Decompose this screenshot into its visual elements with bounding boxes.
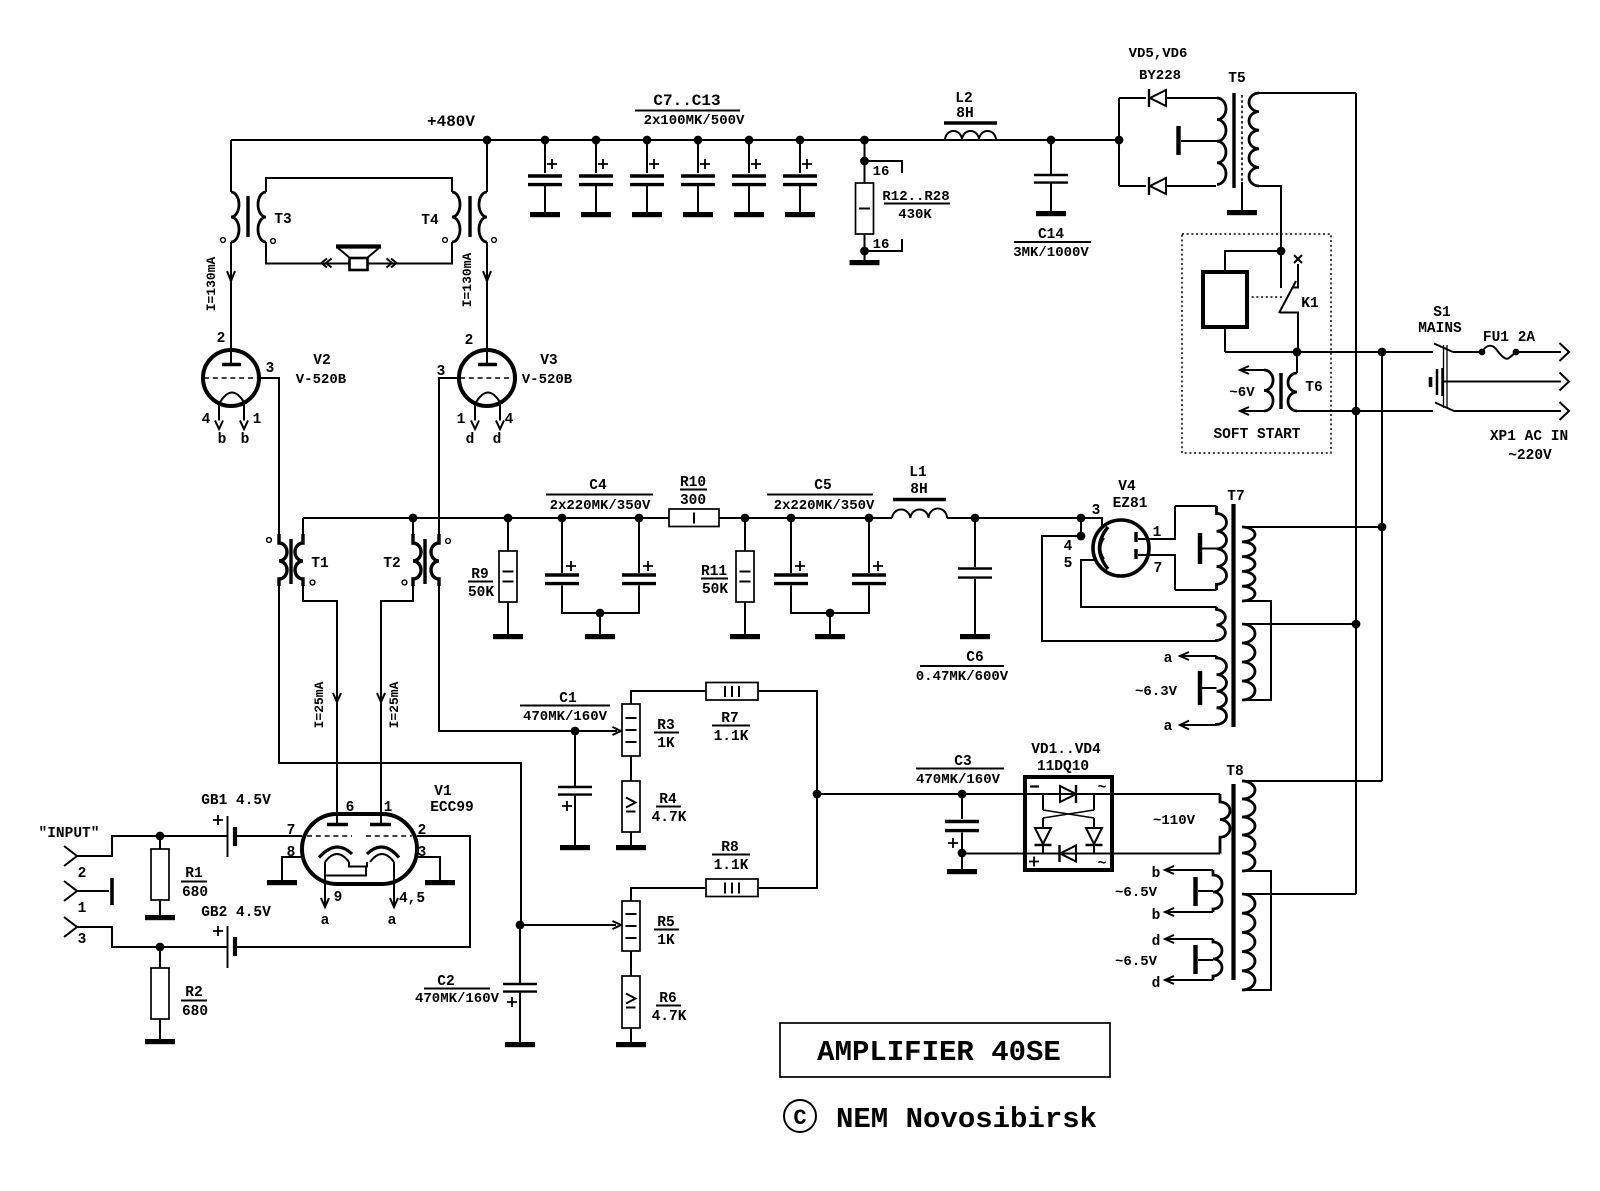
- wire T4 right winding bottom to V2 anode (pin2 of V3): [483, 242, 491, 364]
- wire T2 left winding top to B+ rail: [412, 518, 414, 534]
- resistor R8: [706, 879, 758, 897]
- wire switched mains vertical line: [1381, 352, 1383, 781]
- svg-text:+480V: +480V: [427, 113, 475, 131]
- wire bridge to T8 110V top: [1112, 793, 1220, 795]
- T8 heater winding d: [1196, 939, 1223, 980]
- svg-text:VD5,VD6: VD5,VD6: [1129, 46, 1188, 62]
- wire mains bottom line: [1297, 407, 1433, 416]
- wire R7 right to C3 node: [758, 691, 817, 794]
- resistor R1: [145, 836, 175, 920]
- wire T8 b lead top: [1152, 866, 1213, 882]
- capacitor C4 (2 sections): [545, 518, 656, 639]
- wire T1 primary bottom to R5 node: [279, 586, 521, 925]
- svg-text:~6.5V: ~6.5V: [1115, 954, 1158, 970]
- svg-text:V4: V4: [1118, 479, 1136, 495]
- label R6 4.7K: [652, 991, 687, 1025]
- wire bridge to T8 110V bottom: [1112, 853, 1220, 855]
- wire T8 primary lower top to mains neutral: [1242, 893, 1356, 895]
- svg-text:d: d: [466, 432, 475, 448]
- svg-text:ECC99: ECC99: [430, 800, 474, 816]
- capacitor C3: [945, 790, 979, 875]
- tube V1 ECC99: [287, 784, 474, 929]
- relay K1 coil: [1203, 251, 1281, 352]
- wire T8 primary bottoms tied: [1242, 871, 1271, 990]
- svg-text:3MK/1000V: 3MK/1000V: [1013, 245, 1089, 261]
- wire T8 d lead bottom: [1152, 976, 1213, 992]
- wire T7 primary sections bottoms tied: [1242, 601, 1271, 700]
- resistor R7: [706, 683, 758, 701]
- capacitor C5 (2 sections): [774, 518, 886, 639]
- wire R8 right to C3 node: [758, 794, 817, 888]
- svg-text:d: d: [1152, 934, 1161, 950]
- resistor R6: [616, 976, 646, 1047]
- svg-text:T5: T5: [1228, 71, 1245, 87]
- svg-text:C5: C5: [814, 478, 831, 494]
- label I=130mA right: [460, 252, 475, 307]
- wire V4 heater pin4 loop: [1042, 536, 1217, 641]
- svg-text:T6: T6: [1305, 380, 1322, 396]
- svg-text:1K: 1K: [657, 736, 675, 752]
- svg-text:1K: 1K: [657, 933, 675, 949]
- T7 primary lower section: [1242, 624, 1255, 700]
- wire T3 secondary top to T4: [266, 178, 452, 192]
- svg-text:470MK/160V: 470MK/160V: [415, 991, 500, 1007]
- svg-text:T8: T8: [1226, 764, 1243, 780]
- label R5 1K: [654, 915, 679, 949]
- svg-text:7: 7: [287, 823, 296, 839]
- junction C1 node: [571, 727, 580, 736]
- svg-text:1: 1: [78, 901, 87, 917]
- node +480V label: [427, 113, 475, 131]
- resistor R3: [622, 704, 640, 756]
- fuse FU1: [1453, 330, 1535, 359]
- tube V3: [437, 333, 573, 448]
- svg-text:R1: R1: [185, 866, 203, 882]
- wire input pin2 to grid node: [77, 836, 160, 856]
- wire arrow into R5: [520, 921, 621, 929]
- svg-text:I=130mA: I=130mA: [204, 256, 219, 311]
- svg-text:680: 680: [182, 885, 208, 901]
- label R1 680: [181, 866, 208, 901]
- switch S1 MAINS: [1418, 305, 1462, 411]
- svg-text:~110V: ~110V: [1153, 813, 1196, 829]
- svg-text:50K: 50K: [702, 582, 728, 598]
- resistor R11: [730, 518, 760, 639]
- svg-text:2: 2: [418, 823, 427, 839]
- svg-text:S1: S1: [1433, 305, 1451, 321]
- svg-text:C6: C6: [966, 650, 983, 666]
- svg-text:"INPUT": "INPUT": [39, 826, 100, 842]
- label R9 50K: [468, 567, 494, 601]
- svg-text:470MK/160V: 470MK/160V: [523, 709, 608, 725]
- label R8 1.1K: [712, 840, 750, 874]
- label R2 680: [181, 985, 208, 1020]
- svg-text:I=130mA: I=130mA: [460, 252, 475, 307]
- svg-text:SOFT START: SOFT START: [1213, 427, 1300, 443]
- svg-text:K1: K1: [1301, 296, 1319, 312]
- wire C3 node to bridge: [817, 793, 1025, 795]
- transformer T5: [1179, 71, 1260, 215]
- transformer T8 110V winding: [1153, 794, 1230, 854]
- svg-text:V3: V3: [540, 353, 557, 369]
- wire T8 b lead bottom: [1152, 908, 1213, 924]
- label SOFT START: [1213, 427, 1300, 443]
- svg-text:2x220MK/350V: 2x220MK/350V: [550, 498, 651, 514]
- inductor L1: [892, 465, 947, 518]
- wire V4 heater pin5 loop: [1081, 560, 1217, 607]
- junction R5 node: [516, 921, 525, 930]
- svg-text:a: a: [321, 913, 330, 929]
- svg-text:50K: 50K: [468, 585, 494, 601]
- label R4 4.7K: [652, 792, 687, 826]
- wire T5 primary bottom to K1 node: [1259, 186, 1281, 251]
- wire V1 pin8 to ground: [267, 857, 303, 885]
- svg-text:a: a: [1164, 651, 1173, 667]
- label R11 50K: [701, 564, 728, 598]
- svg-text:2x100MK/500V: 2x100MK/500V: [644, 113, 745, 129]
- soft start dotted box: [1182, 234, 1331, 453]
- svg-text:4: 4: [1064, 539, 1073, 555]
- label ~6.5V upper: [1115, 885, 1158, 901]
- svg-text:2: 2: [78, 866, 87, 882]
- label R12..R28 430K: [882, 189, 950, 223]
- svg-text:6: 6: [346, 800, 355, 816]
- svg-text:BY228: BY228: [1139, 68, 1181, 84]
- svg-text:~6.3V: ~6.3V: [1135, 684, 1178, 700]
- T8 heater winding b: [1196, 870, 1223, 912]
- svg-text:b: b: [1152, 908, 1161, 924]
- wire V1 pin3 to ground: [416, 857, 455, 885]
- svg-text:~: ~: [1098, 780, 1107, 796]
- svg-text:a: a: [1164, 719, 1173, 735]
- wire T7 heater lead a top: [1164, 651, 1217, 667]
- label C2 value: [415, 974, 500, 1007]
- svg-text:I=25mA: I=25mA: [387, 681, 402, 728]
- svg-text:C7..C13: C7..C13: [653, 92, 720, 110]
- svg-text:0.47MK/600V: 0.47MK/600V: [916, 669, 1009, 685]
- label I=25mA left: [312, 681, 327, 728]
- wire arrow into R3: [575, 727, 621, 735]
- transformer T8 core: [1226, 764, 1243, 980]
- T8 primary upper section: [1242, 781, 1255, 871]
- label C3 value: [916, 754, 1004, 788]
- svg-text:V1: V1: [434, 784, 452, 800]
- junction input nodes: [156, 832, 165, 952]
- svg-text:~: ~: [1098, 856, 1107, 872]
- svg-text:7: 7: [1154, 561, 1163, 577]
- label C4 value: [546, 478, 653, 514]
- svg-text:T7: T7: [1227, 489, 1244, 505]
- svg-text:1.1K: 1.1K: [714, 729, 749, 745]
- svg-text:GB1 4.5V: GB1 4.5V: [201, 793, 271, 809]
- transformer T1: [267, 534, 329, 586]
- label R7 1.1K: [712, 711, 750, 745]
- svg-text:C14: C14: [1038, 227, 1064, 243]
- resistor R4: [616, 781, 646, 850]
- title box AMPLIFIER 40SE: [780, 1023, 1110, 1077]
- svg-text:3: 3: [1092, 503, 1101, 519]
- wire T7 heater lead a bottom: [1164, 719, 1217, 735]
- wire V3 pin3 to T2 right winding: [439, 378, 459, 534]
- wire GB2 to V1 pin2 loop: [236, 836, 470, 947]
- svg-text:5: 5: [1064, 556, 1073, 572]
- label ~6.5V lower: [1115, 954, 1158, 970]
- svg-text:b: b: [241, 432, 250, 448]
- svg-text:680: 680: [182, 1004, 208, 1020]
- input connector XS "INPUT": [39, 826, 100, 948]
- input pin1 shield bar: [77, 878, 112, 905]
- capacitor C14: [1013, 140, 1091, 261]
- svg-text:1: 1: [253, 412, 262, 428]
- junction C3 top node: [813, 790, 822, 799]
- wire R5 to R6: [630, 951, 632, 976]
- wire V4 pin7 to T7: [1138, 555, 1175, 590]
- svg-text:~6.5V: ~6.5V: [1115, 885, 1158, 901]
- svg-text:470MK/160V: 470MK/160V: [916, 772, 1001, 788]
- capacitor C6: [916, 518, 1009, 685]
- wire +480V rail: [231, 139, 1119, 141]
- svg-text:FU1 2A: FU1 2A: [1483, 330, 1536, 346]
- T8 primary lower section: [1242, 894, 1255, 990]
- wire T8 primary top to switched mains: [1242, 780, 1382, 782]
- diodes VD5,VD6 BY228: [1119, 46, 1217, 195]
- transformer T6: [1229, 352, 1322, 415]
- wire input pin3 to lower node: [77, 927, 160, 947]
- svg-text:4,5: 4,5: [399, 891, 425, 907]
- battery GB2: [160, 905, 271, 968]
- connector XP1 arrows: [1431, 343, 1570, 464]
- svg-text:~6V: ~6V: [1229, 385, 1255, 401]
- svg-text:AMPLIFIER 40SE: AMPLIFIER 40SE: [817, 1036, 1061, 1069]
- svg-text:3: 3: [266, 361, 275, 377]
- transformer T3: [221, 192, 292, 243]
- svg-text:NEM Novosibirsk: NEM Novosibirsk: [836, 1103, 1097, 1136]
- svg-text:b: b: [218, 432, 227, 448]
- svg-text:3: 3: [78, 932, 87, 948]
- label I=25mA right: [387, 681, 402, 728]
- label C5 value: [767, 478, 875, 514]
- svg-text:11DQ10: 11DQ10: [1037, 759, 1089, 775]
- battery GB1: [160, 793, 302, 857]
- bridge rectifier VD1..VD4: [1025, 777, 1112, 872]
- svg-text:16: 16: [873, 164, 890, 180]
- label C7..C13 value: [635, 92, 745, 129]
- svg-text:1: 1: [384, 800, 393, 816]
- svg-text:T2: T2: [383, 556, 400, 572]
- svg-text:a: a: [388, 913, 397, 929]
- svg-text:GB2 4.5V: GB2 4.5V: [201, 905, 271, 921]
- wire T5 primary top to mains line: [1259, 92, 1356, 94]
- svg-text:EZ81: EZ81: [1113, 496, 1148, 512]
- svg-text:8H: 8H: [910, 482, 927, 498]
- svg-text:C4: C4: [589, 478, 607, 494]
- svg-text:2: 2: [465, 333, 474, 349]
- wire R3 top to R7: [631, 691, 706, 704]
- wire R5 top to R8: [631, 888, 706, 901]
- svg-text:1.1K: 1.1K: [714, 858, 749, 874]
- svg-text:T3: T3: [274, 212, 291, 228]
- label ~6.3V: [1135, 684, 1178, 700]
- resistor R10: [669, 475, 719, 527]
- svg-text:430K: 430K: [898, 207, 932, 223]
- svg-text:16: 16: [873, 237, 890, 253]
- wire T2 right winding bottom to C1 node: [439, 586, 575, 731]
- svg-text:MAINS: MAINS: [1418, 321, 1462, 337]
- wire mains top line: [1225, 348, 1433, 357]
- svg-text:V2: V2: [313, 353, 330, 369]
- svg-text:4: 4: [505, 412, 514, 428]
- capacitor C1: [558, 731, 592, 850]
- wire C3 lower node to bridge plus: [962, 853, 1025, 855]
- inductor L2: [944, 91, 997, 140]
- junction dots on +480V rail: [483, 136, 1124, 145]
- wire mains neutral vertical line: [1355, 93, 1357, 894]
- resistor R2: [145, 947, 175, 1044]
- svg-text:~220V: ~220V: [1508, 448, 1552, 464]
- svg-text:R2: R2: [185, 985, 202, 1001]
- capacitor C2: [503, 925, 537, 1047]
- tube V4 EZ81: [1064, 479, 1163, 577]
- svg-text:3: 3: [418, 845, 427, 861]
- wire +480V rail corner down to T3 primary: [230, 140, 232, 192]
- svg-text:9: 9: [334, 890, 343, 906]
- wire T8 d lead top: [1152, 934, 1213, 950]
- svg-text:1: 1: [457, 412, 466, 428]
- svg-text:d: d: [493, 432, 502, 448]
- wire T3 secondary bottom to speaker line: [266, 242, 452, 264]
- transformer T2: [383, 534, 450, 586]
- label VD1..VD4 11DQ10: [1031, 742, 1101, 775]
- svg-text:XP1 AC IN: XP1 AC IN: [1490, 429, 1568, 445]
- wire R3 to R4: [630, 756, 632, 781]
- wire B+ rail after R10 row: [303, 517, 1081, 519]
- svg-text:V-520B: V-520B: [522, 372, 573, 388]
- wire V4 pin1 to T7: [1138, 506, 1175, 539]
- junction dots on B+ rail: [409, 514, 1086, 523]
- capacitor bank C7..C13: [528, 140, 817, 217]
- wire T3 left winding bottom to V2 pin 2: [227, 242, 235, 364]
- resistor R9: [493, 518, 523, 639]
- copyright NEM Novosibirsk: [784, 1100, 1097, 1136]
- svg-text:T1: T1: [311, 556, 329, 572]
- svg-text:T4: T4: [421, 213, 439, 229]
- svg-text:L2: L2: [955, 91, 972, 107]
- transformer T7: [1175, 489, 1245, 727]
- speaker: [322, 247, 397, 271]
- label R3 1K: [654, 718, 679, 752]
- wire T1 secondary bottom to V1 pin6 anode: [303, 586, 341, 824]
- wire T1 secondary top to B+ rail: [302, 518, 304, 534]
- resistor R5: [622, 901, 640, 951]
- svg-text:V-520B: V-520B: [296, 372, 347, 388]
- label I=130mA left: [204, 256, 219, 311]
- wire T4 right winding top to +480V rail: [486, 140, 488, 192]
- svg-text:4: 4: [202, 412, 211, 428]
- svg-text:b: b: [1152, 866, 1161, 882]
- junction K1 node: [1277, 247, 1286, 256]
- svg-text:L1: L1: [909, 465, 927, 481]
- svg-text:C: C: [793, 1106, 806, 1131]
- relay contact K1: [1247, 251, 1319, 352]
- wire T7 primary lower top to mains neutral: [1242, 620, 1360, 629]
- svg-text:8H: 8H: [956, 106, 973, 122]
- svg-text:d: d: [1152, 976, 1161, 992]
- svg-text:300: 300: [680, 493, 706, 509]
- svg-text:VD1..VD4: VD1..VD4: [1031, 742, 1101, 758]
- svg-text:4.7K: 4.7K: [652, 1009, 687, 1025]
- svg-text:4.7K: 4.7K: [652, 810, 687, 826]
- label C1 value: [520, 691, 610, 725]
- wire V2 pin3 to T1 left winding: [259, 378, 279, 534]
- resistor chain R12..R28: [850, 140, 903, 265]
- tube V2: [202, 331, 347, 448]
- transformer T4: [421, 192, 496, 242]
- T7 primary upper section: [1242, 527, 1255, 601]
- svg-text:2x220MK/350V: 2x220MK/350V: [774, 498, 875, 514]
- svg-text:8: 8: [287, 845, 296, 861]
- wire T7 primary top to switched mains: [1242, 523, 1386, 532]
- wire T2 left winding bottom to V1 pin1 anode: [377, 586, 413, 824]
- svg-text:2: 2: [217, 331, 226, 347]
- svg-text:I=25mA: I=25mA: [312, 681, 327, 728]
